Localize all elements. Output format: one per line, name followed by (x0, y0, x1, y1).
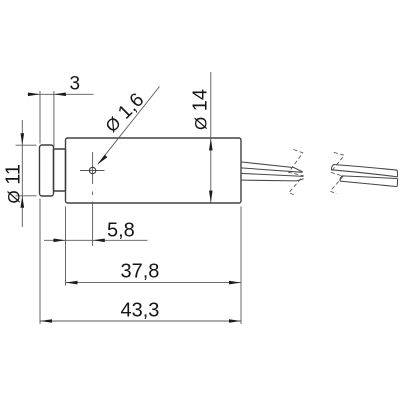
wire lower-right segment (340, 176, 398, 187)
dim 5,8 extension line (body left edge) (65, 207, 67, 286)
svg-text:Ø 11: Ø 11 (3, 164, 25, 204)
dim 43,3 arrows (40, 319, 52, 323)
wire lower-left segment (241, 173, 304, 181)
svg-text:5,8: 5,8 (107, 220, 135, 242)
dim 3 arrows (28, 93, 40, 97)
collar ring (54, 149, 66, 191)
svg-text:43,3: 43,3 (121, 300, 160, 322)
svg-text:3: 3 (70, 74, 81, 95)
dim O11 arrows (21, 133, 25, 145)
hole crosshair horizontal (80, 170, 105, 172)
dim 3 extension lines (39, 91, 41, 144)
dim O11 dimension line (21, 120, 23, 227)
laser module body (cylinder side view) (66, 138, 242, 203)
dim 3 dimension line (28, 93, 94, 95)
leader arrowhead (98, 155, 108, 165)
dim 5,8 arrows (54, 239, 66, 243)
svg-text:Ø 14: Ø 14 (190, 89, 212, 130)
break mark 1 (289, 150, 304, 196)
hole circle O1,6 (89, 167, 95, 173)
dim O11 extension lines (16, 144, 37, 146)
dim O14 dimension line (210, 72, 212, 203)
dim 43,3 extension lines (39, 199, 41, 325)
break mark 2 (330, 152, 344, 194)
leader line for O1,6 (98, 87, 160, 165)
hole crosshair vertical / centre extension (92, 152, 94, 184)
svg-text:37,8: 37,8 (121, 261, 160, 283)
front cap (40, 145, 54, 196)
dim 37,8 dimension line (66, 282, 242, 284)
dim 43,3 dimension line (40, 320, 241, 322)
wire upper-right segment (331, 165, 397, 177)
svg-text:Ø 1,6: Ø 1,6 (100, 89, 148, 137)
wire upper-left segment (241, 162, 303, 172)
dim 37,8 arrows (66, 281, 78, 285)
dim O14 arrows (209, 138, 213, 150)
dim 5,8 dimension line (44, 239, 148, 241)
